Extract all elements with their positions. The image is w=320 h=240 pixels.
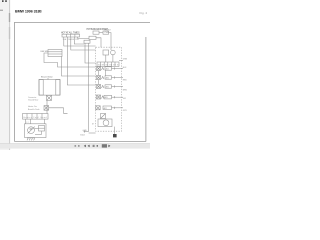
connector X7 small [44,106,49,111]
wire D down to node [85,43,96,63]
sidebar scrollbar thumb [9,13,10,22]
svg-text:A12: A12 [106,68,109,71]
diagram frame top edge [14,22,150,24]
transistor Q1 [101,114,106,119]
wire blower down [46,100,48,113]
wire fuse1 down [64,37,96,46]
svg-text:IGN SW: IGN SW [41,51,48,53]
svg-text:Connector: Connector [28,96,37,99]
svg-text:GND: GND [83,130,88,132]
wire contact down [112,55,114,62]
fusible link box D [84,40,90,43]
relay K2 box B [103,31,109,34]
sidebar icon dot 2 [5,0,7,2]
svg-text:A26: A26 [106,77,109,80]
relay coil inside module [103,50,109,55]
wire A to B [99,32,103,34]
connector X3 row3 [97,85,101,89]
wire C to module [96,38,101,47]
wire fuse5 to relay C [78,37,89,38]
wire coil down [105,55,107,62]
svg-text:Blower Motor: Blower Motor [41,76,53,79]
wire S1 left loop [44,53,96,67]
status bar nav glyphs [75,144,111,147]
diagram frame left edge [14,23,16,142]
wire motor to resistor [34,127,38,129]
sidebar small icon [0,10,3,11]
fuse value labels [63,38,80,41]
wire X-box column link [98,71,100,76]
connector X2 row2 [97,76,101,80]
wire X7 to stub [49,108,68,114]
resistor block R1 [39,126,45,132]
label left of module bottom [83,130,88,132]
sidebar icon dot 1 [2,0,4,2]
control module A1 dashed box [96,47,122,131]
wire long vertical bus [88,43,90,131]
svg-text:BRN: BRN [123,89,128,91]
svg-text:A31: A31 [106,86,109,89]
ground G1 [27,137,35,139]
svg-text:Fig. 4: Fig. 4 [140,11,148,15]
blower motor label [41,76,53,79]
svg-text:Board In Dash: Board In Dash [28,109,40,111]
sidebar panel [0,0,10,150]
status bar [0,144,150,149]
pump motor M2 [98,119,112,127]
wire bus bottom corner [84,131,89,133]
svg-text:30 87 85 86 87 8: 30 87 85 86 87 8 [98,64,119,66]
motor symbol M3 [28,127,35,134]
svg-text:RED: RED [123,80,128,82]
blower motor M1 housing [39,80,60,96]
diagram frame right edge [145,37,147,142]
relay contact circle [111,50,116,55]
wire resistor down [41,131,43,135]
relay label lines left [28,105,40,111]
svg-text:A15: A15 [105,96,108,99]
relay header text [87,28,109,31]
wire fuse3 down [71,37,96,50]
svg-text:GRY: GRY [123,110,128,112]
svg-text:PWR: PWR [105,32,110,34]
connector X5 row5 [96,106,100,110]
svg-text:Heater Circ: Heater Circ [28,105,37,108]
ignition switch S1 [41,51,48,53]
heater unit M3 box [25,124,47,138]
svg-text:Heater Cntrl Head: Heater Cntrl Head [24,116,47,119]
terminal strip bus [97,62,119,66]
relay K3 box C [89,36,96,39]
diagram frame bottom edge [15,141,146,143]
svg-text:VIO: VIO [123,98,127,100]
wire exit top right [119,60,123,62]
connector X6 under blower [47,95,52,100]
svg-text:Ground Near: Ground Near [28,100,39,102]
svg-text:GRN: GRN [123,59,128,61]
ground block G2 [113,134,117,137]
wire motor to ground [114,127,116,134]
wire B down to module [109,33,111,50]
connector X1 row1 [97,67,101,71]
wire module bottom left stub [89,132,96,134]
motor arrow [28,127,35,134]
blower connector labels [28,96,39,102]
wire fuse2 down long [67,37,95,85]
label right of relays [105,29,112,34]
connector X4 row4 [97,95,101,99]
svg-text:A22: A22 [104,107,107,110]
heater pin wires [25,119,27,124]
svg-text:BMW 1996 318ti: BMW 1996 318ti [15,9,42,13]
wire S1 pin2 [62,57,96,77]
svg-text:G104: G104 [80,134,85,136]
relay K2 box A [93,31,99,34]
fuse panel header text [61,32,80,35]
wire fuse4 down [74,37,84,44]
heater control C1 strip [23,114,49,120]
fuse block F1 row [62,34,80,37]
